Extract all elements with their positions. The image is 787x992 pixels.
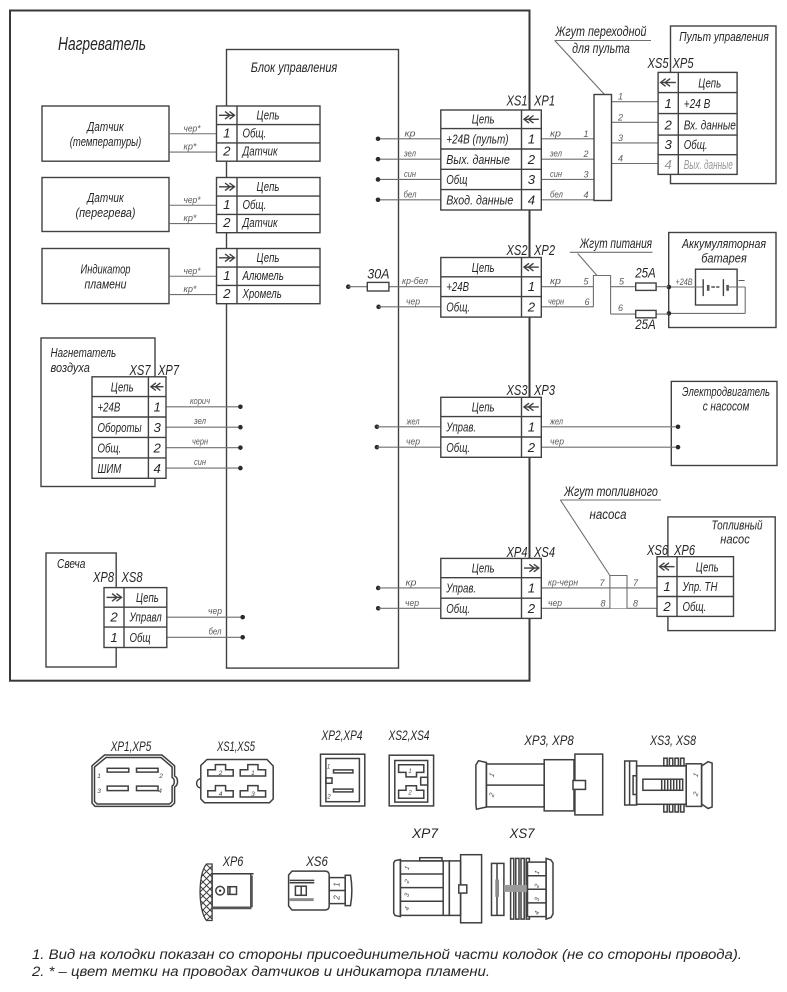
svg-text:+24В: +24В [676,277,693,287]
svg-text:чер: чер [405,598,419,608]
svg-text:1: 1 [528,279,535,294]
svg-text:(температуры): (температуры) [70,134,142,149]
svg-text:XS1: XS1 [506,94,528,110]
svg-text:XS7: XS7 [509,826,536,841]
svg-text:Цепь: Цепь [136,590,159,605]
svg-text:Упр. ТН: Упр. ТН [682,579,718,594]
svg-text:XP1,XP5: XP1,XP5 [110,739,151,754]
svg-text:–: – [737,275,745,287]
svg-text:Общ: Общ [130,630,151,645]
svg-text:XS6: XS6 [305,854,328,869]
svg-text:2: 2 [222,144,231,159]
svg-text:Общ.: Общ. [446,300,470,315]
svg-text:Общ: Общ [446,172,467,187]
svg-text:8: 8 [600,598,605,608]
svg-text:1: 1 [223,197,230,212]
svg-text:1: 1 [665,96,672,111]
svg-text:+24 В: +24 В [684,96,711,111]
svg-text:1: 1 [528,420,535,435]
svg-text:6: 6 [584,297,589,307]
svg-text:XS3, XS8: XS3, XS8 [649,733,696,748]
svg-text:син: син [550,169,562,179]
svg-text:2: 2 [527,300,536,315]
svg-text:25А: 25А [634,317,655,332]
svg-text:черн: черн [548,296,564,306]
svg-text:XP5: XP5 [672,56,694,72]
svg-text:кр*: кр* [184,142,197,152]
svg-text:Жгут топливного: Жгут топливного [563,484,658,499]
svg-text:Топливный: Топливный [711,518,763,533]
svg-text:чер: чер [208,606,222,616]
svg-text:Цепь: Цепь [698,76,721,91]
svg-text:1: 1 [583,129,588,139]
svg-text:XS5: XS5 [647,56,669,72]
svg-text:3: 3 [665,137,673,152]
svg-text:1: 1 [223,268,230,283]
svg-text:2: 2 [326,794,331,800]
svg-text:2: 2 [333,895,342,901]
svg-text:насоса: насоса [590,507,627,522]
svg-text:Вход. данные: Вход. данные [446,193,513,208]
svg-text:1: 1 [154,400,161,415]
svg-text:3: 3 [528,172,536,187]
svg-text:кр-бел: кр-бел [402,276,428,286]
svg-text:Электродвигатель: Электродвигатель [682,384,770,399]
svg-text:чер*: чер* [184,266,201,276]
svg-text:кр: кр [406,577,417,587]
svg-text:чер: чер [406,437,420,447]
svg-text:бел: бел [550,189,563,199]
svg-text:Алюмель: Алюмель [242,268,284,283]
svg-text:XS1,XS5: XS1,XS5 [216,739,255,754]
svg-text:корич: корич [190,396,210,406]
svg-text:Жгут переходной: Жгут переходной [555,24,647,39]
svg-text:черн: черн [192,437,208,447]
svg-text:Вх. данные: Вх. данные [684,118,736,133]
svg-text:2: 2 [218,770,223,777]
svg-text:ШИМ: ШИМ [98,461,122,476]
svg-text:зел: зел [193,416,206,426]
svg-text:Общ.: Общ. [684,137,708,152]
svg-text:Цепь: Цепь [257,179,280,194]
svg-text:1: 1 [528,581,535,596]
svg-text:1. Вид на колодки показан со с: 1. Вид на колодки показан со стороны при… [32,947,742,962]
svg-text:Цепь: Цепь [257,108,280,123]
svg-text:Общ.: Общ. [243,125,267,140]
svg-text:Общ.: Общ. [243,197,267,212]
svg-text:1: 1 [408,769,411,775]
svg-text:Управл: Управл [129,610,162,625]
svg-text:Управ.: Управ. [446,420,477,435]
svg-text:+24В (пульт): +24В (пульт) [446,132,508,147]
svg-text:Хромель: Хромель [242,286,282,301]
svg-text:XP3, XP8: XP3, XP8 [523,733,574,748]
svg-text:2: 2 [109,610,118,625]
svg-text:жел: жел [406,416,420,426]
svg-text:XP2: XP2 [533,243,555,259]
svg-text:2: 2 [527,601,536,616]
svg-text:+24В: +24В [98,400,121,415]
svg-text:1: 1 [663,579,670,594]
svg-text:Жгут питания: Жгут питания [579,236,652,251]
svg-text:жел: жел [549,416,563,426]
svg-text:XP2,XP4: XP2,XP4 [321,728,363,743]
svg-text:Общ.: Общ. [446,601,470,616]
svg-text:2: 2 [527,152,536,167]
svg-text:1: 1 [223,125,230,140]
svg-text:Свеча: Свеча [57,556,85,571]
svg-text:1: 1 [251,770,255,777]
svg-text:Датчик: Датчик [86,190,125,205]
svg-text:Датчик: Датчик [86,119,125,134]
svg-text:Управ.: Управ. [446,581,477,596]
svg-text:кр: кр [405,128,416,138]
svg-text:4: 4 [618,154,623,164]
svg-text:Блок управления: Блок управления [251,59,338,75]
svg-text:3: 3 [618,133,623,143]
svg-text:Обороты: Обороты [98,420,142,435]
svg-text:2. * – цвет метки на проводах: 2. * – цвет метки на проводах датчиков и… [31,964,490,979]
svg-text:1: 1 [97,773,101,780]
svg-text:Цепь: Цепь [472,400,495,415]
svg-text:зел: зел [549,149,562,159]
svg-text:XS8: XS8 [121,570,143,586]
svg-text:2: 2 [153,440,162,455]
svg-text:Нагнетатель: Нагнетатель [51,345,117,360]
svg-text:Цепь: Цепь [472,561,495,576]
svg-text:4: 4 [665,157,672,172]
svg-text:2: 2 [407,791,412,797]
svg-text:4: 4 [219,791,223,798]
svg-text:2: 2 [222,215,231,230]
svg-text:2: 2 [617,112,623,122]
svg-text:бел: бел [404,189,417,199]
svg-text:чер*: чер* [184,123,201,133]
svg-text:кр: кр [550,276,561,286]
svg-text:Цепь: Цепь [696,560,719,575]
svg-text:XS2,XS4: XS2,XS4 [388,728,430,743]
svg-text:с насосом: с насосом [703,399,750,414]
svg-text:Датчик: Датчик [241,144,278,159]
svg-text:2: 2 [222,286,231,301]
svg-text:4: 4 [158,788,162,795]
svg-text:Общ.: Общ. [98,440,122,455]
svg-text:2: 2 [158,773,163,780]
svg-text:4: 4 [154,461,161,476]
svg-text:Вых. данные: Вых. данные [446,152,510,167]
svg-text:чер: чер [548,598,562,608]
svg-text:кр: кр [550,128,561,138]
svg-text:батарея: батарея [701,251,747,266]
svg-text:воздуха: воздуха [51,360,90,375]
svg-text:3: 3 [251,791,255,798]
svg-text:XP1: XP1 [533,94,555,110]
svg-text:кр-черн: кр-черн [548,577,578,587]
svg-text:кр*: кр* [184,213,197,223]
svg-text:4: 4 [583,190,588,200]
svg-text:3: 3 [154,420,162,435]
svg-text:1: 1 [528,132,535,147]
svg-text:кр*: кр* [184,284,197,294]
svg-text:1: 1 [110,630,117,645]
svg-text:Цепь: Цепь [472,260,495,275]
svg-text:2: 2 [582,149,588,159]
svg-text:XP7: XP7 [411,826,439,841]
svg-text:XS2: XS2 [506,243,528,259]
svg-text:Цепь: Цепь [111,380,134,395]
svg-text:чер*: чер* [184,195,201,205]
svg-text:пламени: пламени [85,277,128,292]
svg-text:+24В: +24В [446,279,469,294]
svg-text:2: 2 [527,440,536,455]
svg-text:Цепь: Цепь [472,112,495,127]
svg-text:син: син [194,457,206,467]
svg-text:3: 3 [583,169,588,179]
svg-text:зел: зел [403,149,416,159]
svg-text:25А: 25А [634,266,655,281]
svg-text:1: 1 [618,92,623,102]
svg-text:2: 2 [662,599,671,614]
svg-text:6: 6 [618,303,623,313]
svg-text:1: 1 [327,765,330,771]
svg-text:30А: 30А [367,267,389,282]
svg-text:Аккумуляторная: Аккумуляторная [681,236,766,251]
svg-text:Индикатор: Индикатор [81,262,131,277]
svg-text:Нагреватель: Нагреватель [58,33,146,54]
svg-text:Общ.: Общ. [683,599,707,614]
svg-text:чер: чер [406,296,420,306]
svg-text:Пульт управления: Пульт управления [679,29,769,44]
svg-text:XP8: XP8 [92,570,114,586]
svg-text:для пульта: для пульта [572,41,630,56]
svg-text:Общ.: Общ. [446,440,470,455]
svg-text:бел: бел [209,626,222,636]
svg-text:(перегрева): (перегрева) [76,205,136,220]
svg-text:насос: насос [720,532,750,547]
svg-text:4: 4 [528,193,535,208]
svg-text:8: 8 [633,598,638,608]
svg-text:Датчик: Датчик [241,215,278,230]
svg-text:син: син [404,169,416,179]
svg-text:Вых. данные: Вых. данные [684,157,733,172]
svg-text:чер: чер [550,437,564,447]
svg-text:1: 1 [333,882,342,886]
svg-text:2: 2 [664,118,673,133]
svg-text:XP6: XP6 [222,854,244,869]
svg-text:Цепь: Цепь [257,250,280,265]
svg-text:3: 3 [97,788,101,795]
